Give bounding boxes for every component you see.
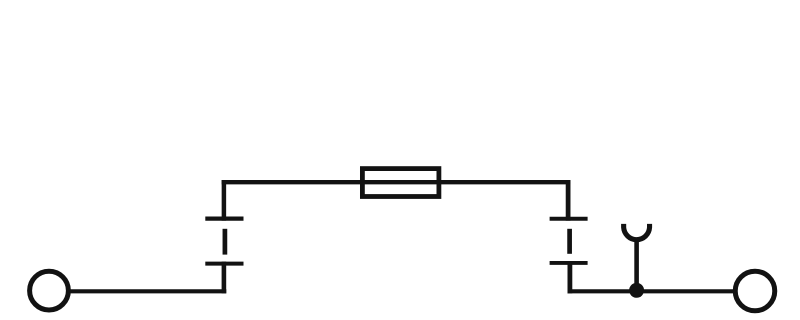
test socket fork xyxy=(624,224,650,240)
junction dot xyxy=(629,283,644,298)
terminal circle left xyxy=(30,271,69,310)
wire bottom right xyxy=(568,289,736,293)
disconnect contact bar lower right xyxy=(550,261,588,265)
disconnect contact bar upper left xyxy=(205,216,243,220)
wire test tap stem xyxy=(634,240,639,290)
wire vertical upper right xyxy=(566,180,571,221)
wire vertical lower right xyxy=(568,261,573,293)
wire bottom left xyxy=(67,289,226,293)
wire vertical lower left xyxy=(222,262,227,294)
fuse F1 xyxy=(362,169,439,197)
disconnect contact blade left xyxy=(223,229,228,255)
disconnect contact blade right xyxy=(567,229,572,254)
wire top xyxy=(222,180,571,184)
wire vertical upper left xyxy=(222,180,227,221)
disconnect contact bar lower left xyxy=(205,262,243,266)
disconnect contact bar upper right xyxy=(550,217,588,221)
terminal circle right xyxy=(735,271,775,311)
